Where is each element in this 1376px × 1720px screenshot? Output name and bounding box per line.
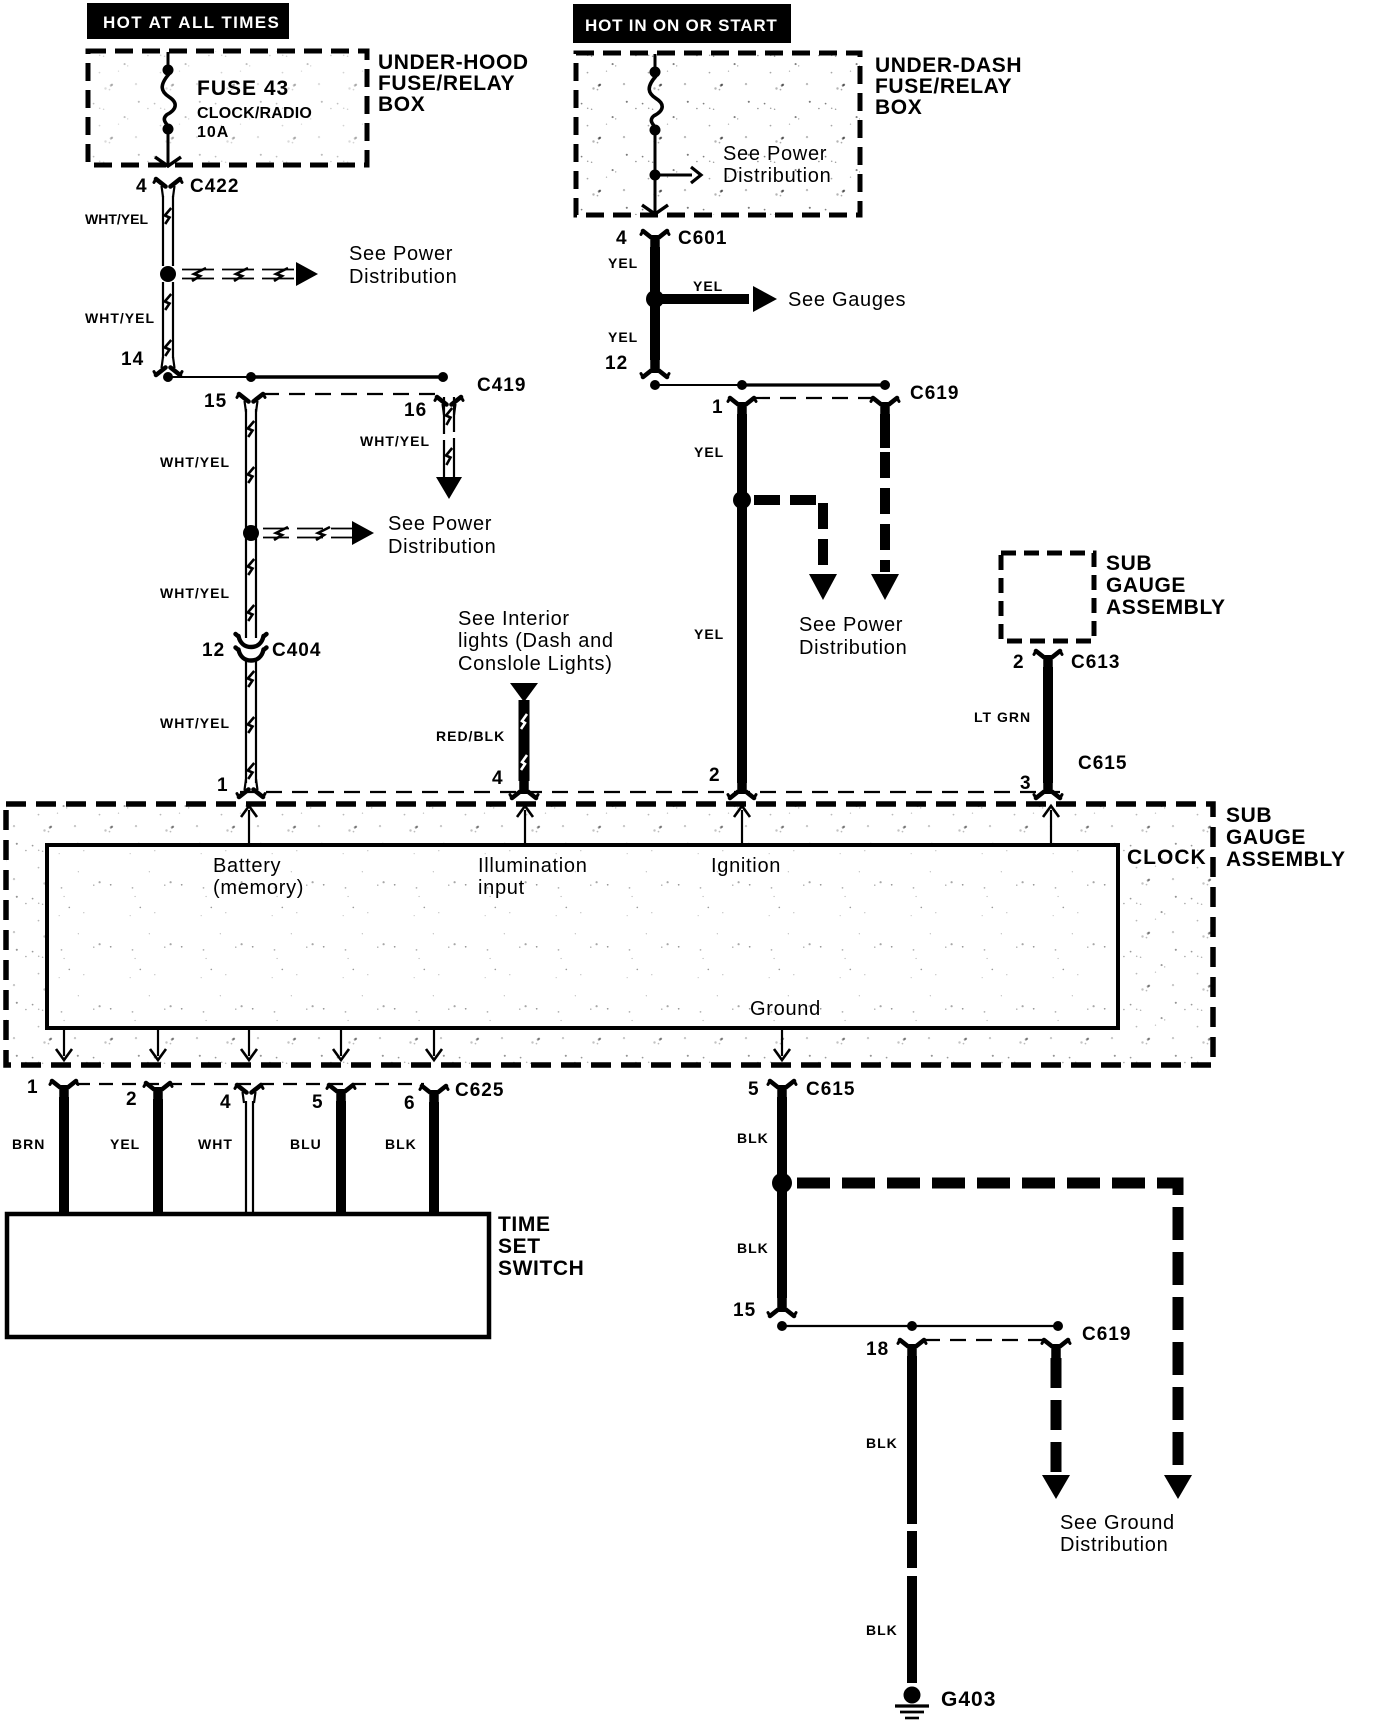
connector C613 [1036,651,1060,659]
junction dot BLK [772,1173,792,1193]
svg-text:ASSEMBLY: ASSEMBLY [1226,848,1346,871]
connector C419 pin15 fork [239,394,263,402]
svg-text:Distribution: Distribution [388,536,496,558]
svg-text:Distribution: Distribution [349,266,457,288]
svg-text:YEL: YEL [608,329,638,345]
svg-text:4: 4 [136,176,148,197]
svg-text:BLK: BLK [866,1622,898,1638]
svg-text:Battery: Battery [213,855,281,877]
svg-text:RED/BLK: RED/BLK [436,728,505,744]
svg-text:UNDER-HOOD: UNDER-HOOD [378,51,529,74]
svg-text:C615: C615 [806,1079,855,1100]
svg-text:12: 12 [605,353,628,374]
svg-text:C419: C419 [477,375,526,396]
dashed connector line C419 [263,393,437,395]
svg-text:YEL: YEL [694,444,724,460]
svg-text:3: 3 [1020,773,1032,794]
svg-text:2: 2 [126,1089,138,1110]
svg-text:2: 2 [1013,652,1025,673]
svg-text:ASSEMBLY: ASSEMBLY [1106,596,1226,619]
svg-text:See Power: See Power [388,513,492,535]
arrow into clock illumination [524,810,526,845]
arrow into clock battery [248,810,250,845]
svg-text:FUSE/RELAY: FUSE/RELAY [875,75,1012,98]
svg-text:C619: C619 [1082,1324,1131,1345]
svg-text:WHT/YEL: WHT/YEL [85,211,148,227]
wire WHT/YEL from C422 [163,196,173,266]
svg-text:12: 12 [202,640,225,661]
svg-text:Distribution: Distribution [723,165,831,187]
wire RED/BLK [521,700,527,781]
wire WHT (double line) [245,1101,247,1215]
svg-text:WHT/YEL: WHT/YEL [160,715,230,731]
junction dot on WHT/YEL [243,525,259,541]
svg-text:5: 5 [748,1079,760,1100]
dashed connector line C625 [76,1083,424,1085]
svg-text:C404: C404 [272,640,321,661]
svg-text:CLOCK: CLOCK [1127,846,1207,869]
wire YEL from C601 [650,247,660,292]
svg-text:lights (Dash and: lights (Dash and [458,630,614,652]
svg-text:BOX: BOX [875,96,922,119]
arrow into clock ignition [741,810,743,845]
svg-text:SUB: SUB [1226,804,1272,827]
svg-text:BLK: BLK [866,1435,898,1451]
wire BRN [59,1097,69,1215]
svg-text:BOX: BOX [378,93,425,116]
svg-text:6: 6 [404,1093,416,1114]
wire YEL to switch [153,1099,163,1215]
svg-text:SWITCH: SWITCH [498,1257,584,1280]
wire BLK to G403 [907,1356,917,1524]
svg-text:1: 1 [27,1077,39,1098]
striped arrow to See Power Distribution (mid) [263,527,352,540]
svg-text:Ground: Ground [750,998,821,1020]
arrow out of clock ground [781,1028,783,1056]
wire LT GRN [1043,667,1053,783]
fuse F43 symbol [167,52,170,66]
junction dot YEL ignition [733,491,751,509]
svg-text:C601: C601 [678,228,727,249]
arrowhead ground distribution right [1164,1475,1192,1499]
wire WHT/YEL main vertical to clock (lower) [246,659,256,783]
connector fork pin4 clock [512,791,536,799]
connector C419 pin16 fork [437,397,461,405]
svg-text:YEL: YEL [693,278,723,294]
branch arrow to See Power Distribution (in box) [655,174,692,177]
connector C619 pin1 fork [730,398,754,406]
time set switch box [7,1214,489,1337]
thick arrow See Gauges [661,294,749,304]
svg-text:Illumination: Illumination [478,855,588,877]
wire YEL ignition vertical [737,414,747,783]
junction dot YEL [646,290,664,308]
connector fork pin1 clock [239,790,263,798]
svg-text:YEL: YEL [110,1136,140,1152]
arrow from interior lights (down triangle) [510,683,538,702]
svg-text:See Power: See Power [723,143,827,165]
wire BLU [336,1101,346,1215]
svg-text:WHT/YEL: WHT/YEL [160,585,230,601]
svg-text:Conslole Lights): Conslole Lights) [458,653,613,675]
svg-text:GAUGE: GAUGE [1106,574,1186,597]
connector C619 right fork [873,398,897,406]
svg-text:C422: C422 [190,176,239,197]
svg-text:See Power: See Power [799,614,903,636]
wire BLK ground upper [777,1097,787,1298]
svg-text:1: 1 [712,397,724,418]
arrowhead pin16 branch [436,477,462,499]
sub gauge assembly box (large, dashed) [6,804,1213,1065]
svg-text:YEL: YEL [608,255,638,271]
striped arrow to See Power Distribution [182,268,294,281]
svg-text:FUSE 43: FUSE 43 [197,77,289,100]
arrows out of clock to C625 pins [63,1028,65,1056]
svg-text:10A: 10A [197,124,229,141]
wire YEL continues [650,305,660,360]
svg-text:CLOCK/RADIO: CLOCK/RADIO [197,105,312,122]
connector C619 pin12 fork [643,370,667,378]
svg-text:Distribution: Distribution [799,637,907,659]
svg-text:5: 5 [312,1092,324,1113]
connector C615 ground fork [770,1081,794,1089]
node line to C419 [163,372,173,382]
thick dashed wire right branch C619 [880,414,890,448]
svg-text:WHT/YEL: WHT/YEL [85,310,155,326]
under-dash fuse/relay box (dashed) [576,53,860,215]
connector C619 right fork (ground) [1044,1340,1068,1348]
svg-text:input: input [478,877,525,899]
svg-text:HOT IN ON OR START: HOT IN ON OR START [585,16,778,35]
connector fork pin3 clock [1036,791,1060,799]
under-hood fuse/relay box (dashed) [88,51,367,165]
svg-text:See Power: See Power [349,243,453,265]
svg-text:BRN: BRN [12,1136,45,1152]
svg-text:BLK: BLK [737,1130,769,1146]
svg-text:4: 4 [616,228,628,249]
node line to C619 (ground) [777,1321,787,1331]
arrowhead ground distribution left [1042,1475,1070,1499]
clock box (solid) [47,845,1118,1028]
svg-text:(memory): (memory) [213,877,304,899]
svg-text:BLK: BLK [737,1240,769,1256]
thick dashed branch to See Power Distribution [754,500,823,572]
node line to C619 [650,380,660,390]
label: HOT AT ALL TIMES banner [87,3,289,39]
dashed connector line C615 across clock top [240,791,1060,793]
svg-text:See Interior: See Interior [458,608,570,630]
svg-text:C615: C615 [1078,753,1127,774]
svg-text:C613: C613 [1071,652,1120,673]
wire WHT/YEL main vertical to clock (upper) [246,409,256,638]
svg-text:C619: C619 [910,383,959,404]
svg-text:16: 16 [404,400,427,421]
connector C419 pin14 fork [156,368,180,376]
svg-text:2: 2 [709,765,721,786]
svg-text:FUSE/RELAY: FUSE/RELAY [378,72,515,95]
svg-text:TIME: TIME [498,1213,551,1236]
svg-text:G403: G403 [941,1688,996,1711]
connector C619 pin18 fork [900,1340,924,1348]
svg-text:UNDER-DASH: UNDER-DASH [875,54,1022,77]
svg-text:1: 1 [217,775,229,796]
svg-text:BLK: BLK [385,1136,417,1152]
svg-text:WHT: WHT [198,1136,233,1152]
connector C619 pin15 fork [770,1309,794,1317]
connector C601 [643,231,667,239]
thick dashed branch to ground distribution (right) [797,1183,1178,1472]
svg-text:WHT/YEL: WHT/YEL [360,433,430,449]
sub gauge assembly box (small, dashed) [1001,553,1094,641]
svg-text:SUB: SUB [1106,552,1152,575]
connector fork pin2 clock [730,791,754,799]
wire BLK to switch [429,1102,439,1215]
svg-text:18: 18 [866,1339,889,1360]
arrow into clock lt-grn [1050,810,1052,845]
svg-text:WHT/YEL: WHT/YEL [160,454,230,470]
svg-text:See Ground: See Ground [1060,1512,1175,1534]
svg-text:See Gauges: See Gauges [788,289,906,311]
svg-text:SET: SET [498,1235,541,1258]
label: HOT IN ON OR START banner [573,4,791,43]
wire WHT/YEL pin16 branch with arrow [444,397,454,477]
svg-text:Distribution: Distribution [1060,1534,1168,1556]
svg-text:YEL: YEL [694,626,724,642]
fuse F13 symbol [654,54,657,68]
svg-text:15: 15 [733,1300,756,1321]
svg-text:Ignition: Ignition [711,855,781,877]
svg-text:4: 4 [492,768,504,789]
svg-text:15: 15 [204,391,227,412]
svg-text:BLU: BLU [290,1136,322,1152]
svg-text:LT GRN: LT GRN [974,709,1031,725]
wire WHT/YEL continues [163,282,173,358]
svg-text:4: 4 [220,1092,232,1113]
junction dot on WHT/YEL wire [160,266,176,282]
svg-text:C625: C625 [455,1080,504,1101]
thick dashed wire pin18 right to ground distribution [1051,1358,1062,1472]
dashed connector line C619 [754,397,873,399]
svg-text:HOT AT ALL TIMES: HOT AT ALL TIMES [103,13,280,32]
arrowhead exiting fuse box [642,205,668,214]
svg-text:GAUGE: GAUGE [1226,826,1306,849]
ground symbol G403 [904,1687,921,1704]
svg-text:14: 14 [121,349,144,370]
connector C422 [156,179,180,187]
dashed connector line C619 (ground) [924,1339,1044,1341]
